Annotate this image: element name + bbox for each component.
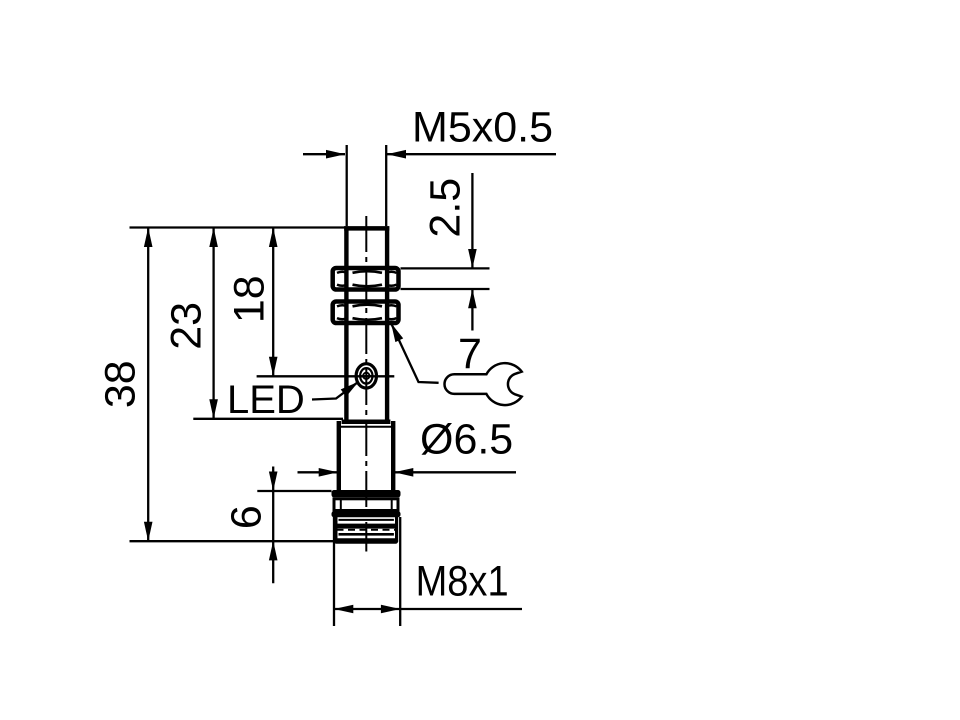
barrel right edge dia 6.5 bbox=[391, 421, 395, 492]
connector thread left edge bbox=[334, 517, 337, 542]
arrow M5 right bbox=[387, 150, 406, 159]
arrow M5 left bbox=[326, 150, 345, 159]
svg-text:M5x0.5: M5x0.5 bbox=[412, 104, 553, 152]
arrow 23 bottom bbox=[209, 399, 218, 419]
wire 38 dim bbox=[147, 228, 149, 542]
barrel left edge dia 6.5 bbox=[337, 421, 341, 492]
wire M5 dim line left bbox=[303, 153, 345, 155]
connector flange bar bbox=[332, 490, 401, 497]
wire 2.5 ext top bbox=[401, 267, 490, 269]
svg-text:Ø6.5: Ø6.5 bbox=[420, 415, 513, 463]
arrow dia6.5 right bbox=[394, 468, 413, 477]
wire M8 dim bbox=[334, 608, 522, 610]
wire 2.5 dim upper bbox=[471, 173, 473, 268]
wire 23 dim bbox=[212, 228, 214, 419]
wire 2.5 dim lower bbox=[471, 290, 473, 331]
connector thread root dashed line bbox=[337, 529, 397, 531]
arrow 2.5 bottom bbox=[468, 289, 477, 308]
connector thread line bbox=[339, 533, 394, 536]
svg-text:LED: LED bbox=[227, 378, 305, 422]
arrow 38 top bbox=[144, 228, 153, 248]
connector hex box bbox=[334, 499, 398, 511]
sensor body top edge M5 face bbox=[344, 226, 389, 231]
svg-text:38: 38 bbox=[96, 360, 144, 408]
svg-text:2.5: 2.5 bbox=[421, 178, 469, 238]
sensor body tube left edge bbox=[344, 226, 348, 421]
wire 18 ext LED line bbox=[257, 375, 395, 377]
arrow dia6.5 left bbox=[319, 468, 338, 477]
wire M5 extension right bbox=[385, 145, 387, 226]
wire 23 ext bbox=[193, 418, 343, 420]
connector thread right edge bbox=[395, 517, 398, 542]
nut N2 facet arcs bbox=[353, 305, 383, 307]
arrow 38 bottom bbox=[144, 522, 153, 542]
connector end face bar bbox=[334, 538, 398, 544]
arrow 18 top bbox=[269, 228, 278, 248]
wire top extension line y=227.5 bbox=[130, 226, 346, 228]
wire M5 dim line right bbox=[387, 153, 556, 155]
LED indicator rings bbox=[356, 364, 376, 388]
wire dia6.5 dim left bbox=[298, 471, 339, 473]
wire dia6.5 dim right bbox=[394, 471, 516, 473]
arrow M8 right bbox=[381, 605, 400, 614]
connector thread thin line bbox=[339, 519, 394, 521]
wire M8 ext left bbox=[333, 498, 335, 626]
wire 2.5 ext bottom bbox=[401, 288, 490, 290]
arrow 2.5 top bbox=[468, 249, 477, 268]
svg-text:M8x1: M8x1 bbox=[416, 558, 509, 606]
svg-text:7: 7 bbox=[458, 330, 482, 378]
arrow leader LED bbox=[341, 382, 359, 397]
barrel chamfer line bbox=[338, 426, 394, 428]
wire 6 top ext bbox=[257, 490, 331, 492]
nut N1 body bbox=[333, 268, 399, 290]
connector hex facet line left bbox=[340, 498, 342, 511]
wrench icon bbox=[445, 363, 522, 405]
arrow 18 bottom bbox=[269, 357, 278, 377]
arrow leader wrench bbox=[391, 323, 403, 342]
svg-text:18: 18 bbox=[226, 275, 274, 323]
wire leader from LED label bbox=[312, 383, 357, 400]
wire M8 ext right bbox=[399, 517, 401, 626]
svg-text:23: 23 bbox=[162, 302, 210, 350]
wire M5 extension left bbox=[346, 145, 348, 226]
wire 6 dim bbox=[272, 467, 274, 584]
arrow 6 upper outside bbox=[269, 472, 278, 492]
connector washer bar bbox=[332, 511, 401, 517]
wire 38 bottom ext bbox=[130, 540, 398, 542]
arrow 23 top bbox=[209, 228, 218, 248]
sensor body tube right edge bbox=[385, 226, 389, 421]
arrow M8 left bbox=[334, 605, 353, 614]
barrel step top edge bbox=[342, 420, 391, 425]
arrow 6 lower outside bbox=[269, 541, 278, 561]
connector hex facet line right bbox=[391, 498, 393, 511]
wire 18 dim bbox=[272, 228, 274, 377]
connector thread crest line bbox=[335, 524, 398, 529]
wire leader to nut (wrench size 7) bbox=[391, 323, 439, 383]
svg-text:6: 6 bbox=[223, 505, 271, 529]
nut N1 facet arcs bbox=[353, 271, 383, 273]
centerline bbox=[365, 216, 367, 552]
nut N2 body bbox=[333, 302, 399, 324]
